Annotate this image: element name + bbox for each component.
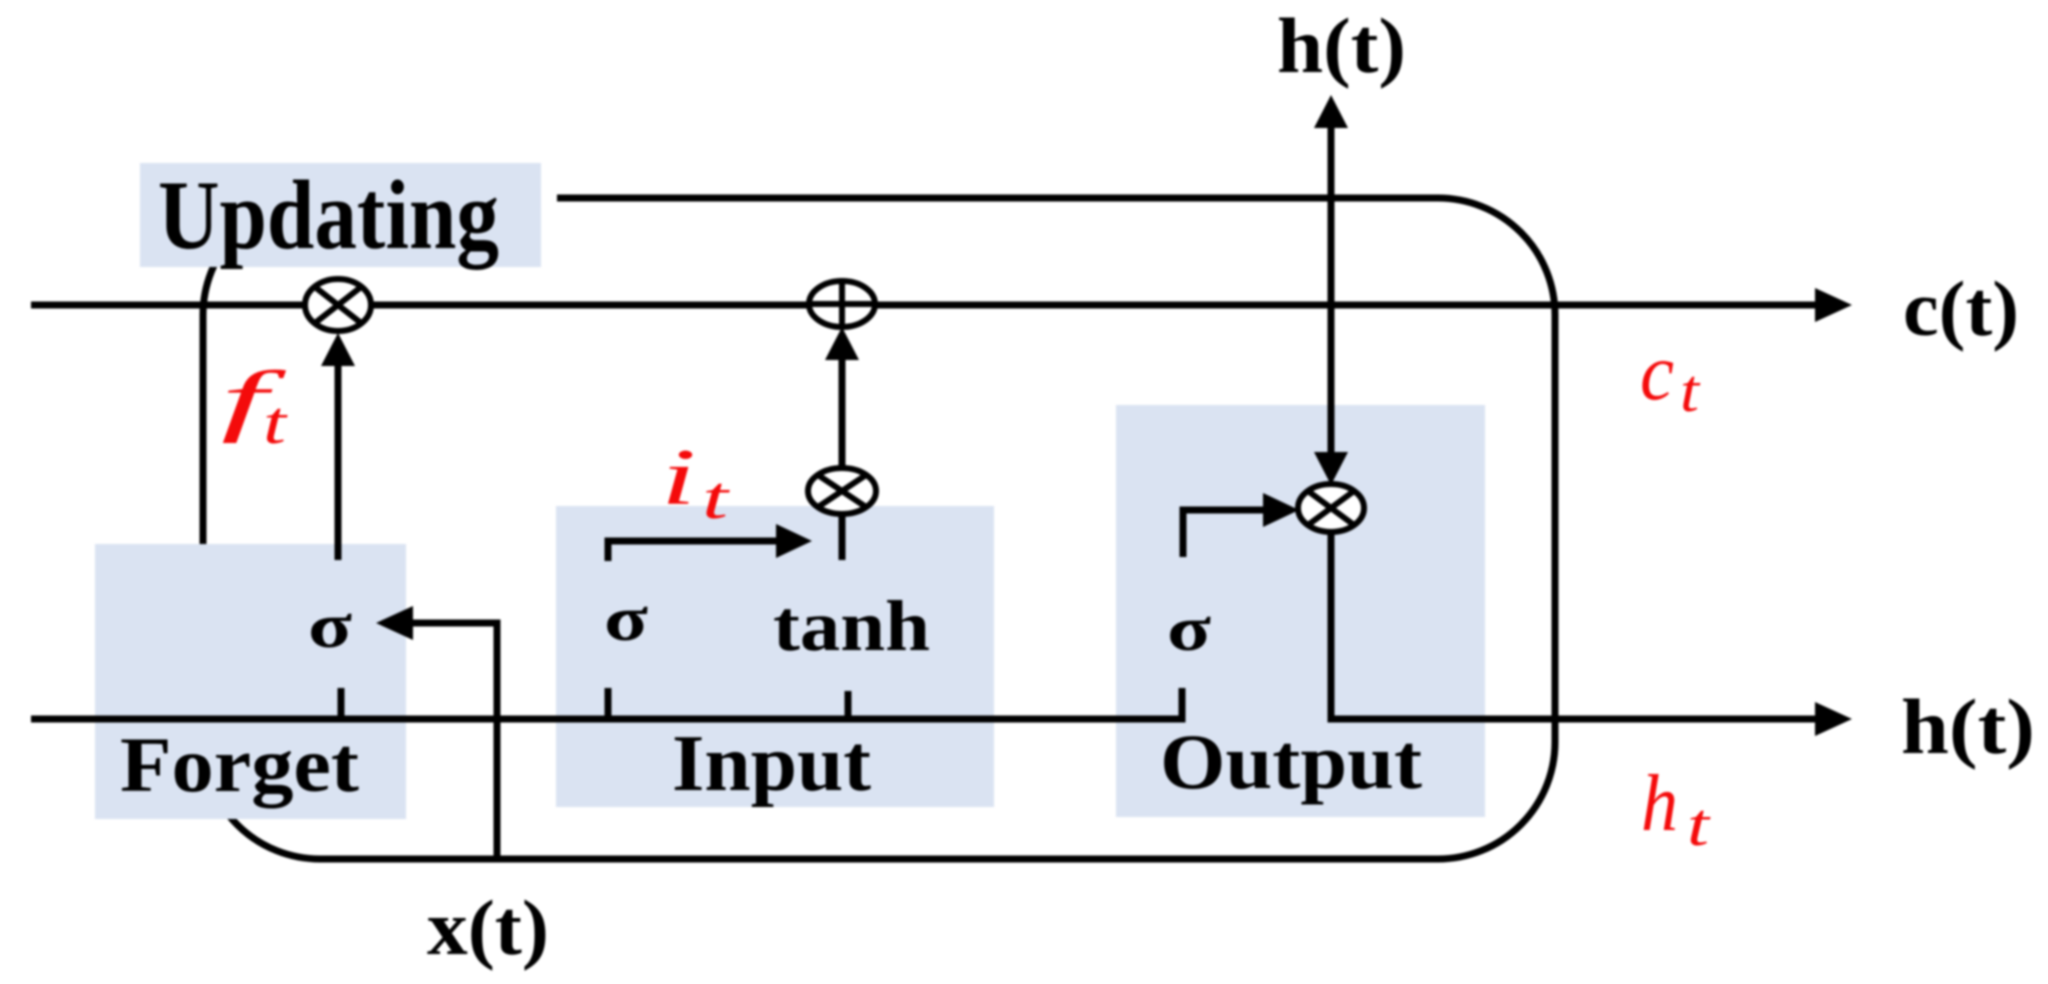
svg-text:tanh: tanh xyxy=(773,586,930,666)
wire adder to input multiplier xyxy=(839,360,846,469)
wire h-line right segment from output multiplier xyxy=(1331,532,1816,719)
arrowhead down into output multiplier xyxy=(1314,452,1348,485)
Updating label box xyxy=(140,163,541,267)
arrowhead h(t) up xyxy=(1314,95,1348,128)
svg-text:t: t xyxy=(702,465,730,531)
svg-text:Forget: Forget xyxy=(120,721,359,808)
svg-text:t: t xyxy=(1680,358,1701,424)
input multiplier node xyxy=(808,468,876,514)
svg-text:i: i xyxy=(661,434,696,522)
svg-text:x(t): x(t) xyxy=(427,884,549,971)
multiplier node on c-line xyxy=(305,279,371,331)
svg-text:c(t): c(t) xyxy=(1903,265,2019,352)
svg-text:t: t xyxy=(263,390,288,456)
svg-text:Input: Input xyxy=(672,720,871,808)
wire x(t) to forget sigma xyxy=(413,623,497,859)
arrowhead f_t up xyxy=(321,333,355,366)
arrowhead into output multiplier right xyxy=(1263,493,1299,527)
wire input multiplier tail xyxy=(839,513,846,560)
wire c-line horizontal xyxy=(31,302,1816,309)
cell boundary rounded rectangle xyxy=(203,198,1555,859)
svg-text:h(t): h(t) xyxy=(1277,2,1406,89)
svg-text:c: c xyxy=(1640,329,1674,417)
svg-text:σ: σ xyxy=(604,583,648,654)
arrowhead i_t right xyxy=(776,524,812,558)
arrowhead into forget sigma left xyxy=(376,606,413,640)
wire h-line left segment with riser xyxy=(31,688,1182,719)
Input gate box xyxy=(556,506,994,807)
wire h(t) up arrow vertical xyxy=(1328,128,1335,452)
svg-text:Output: Output xyxy=(1160,718,1422,805)
Forget gate box xyxy=(95,544,406,819)
tick forget sigma pin xyxy=(338,688,345,716)
svg-text:h(t): h(t) xyxy=(1901,683,2035,770)
svg-text:h: h xyxy=(1641,760,1678,848)
Output gate box xyxy=(1116,405,1485,817)
svg-text:t: t xyxy=(1687,792,1711,858)
wire output sigma to multiplier xyxy=(1183,510,1263,557)
tick tanh pin xyxy=(845,691,852,716)
adder node on c-line xyxy=(809,281,875,327)
output multiplier node xyxy=(1298,484,1364,532)
svg-text:Updating: Updating xyxy=(158,161,499,270)
arrowhead into adder xyxy=(825,327,859,360)
arrowhead h(t) right xyxy=(1815,702,1852,736)
svg-text:σ: σ xyxy=(308,590,352,661)
arrowhead c(t) xyxy=(1815,288,1852,322)
wire forget sigma to multiplier f_t xyxy=(335,366,342,560)
wire i_t arrow xyxy=(608,541,776,561)
svg-text:σ: σ xyxy=(1167,593,1211,664)
tick input sigma pin xyxy=(605,688,612,716)
